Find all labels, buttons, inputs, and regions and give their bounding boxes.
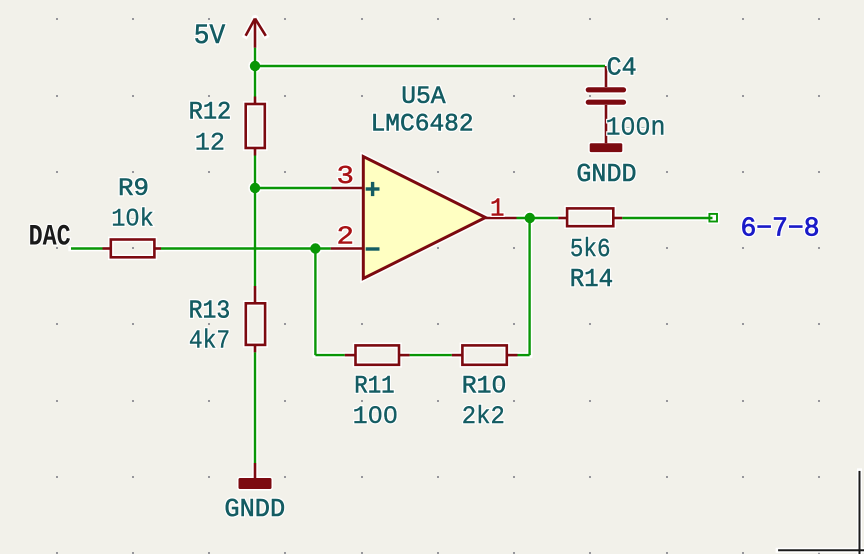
svg-text:U5A: U5A (401, 82, 446, 111)
svg-text:2k2: 2k2 (462, 403, 505, 431)
svg-text:5k6: 5k6 (570, 235, 611, 264)
svg-text:2: 2 (337, 222, 355, 251)
svg-text:1: 1 (490, 194, 505, 224)
svg-text:DAC: DAC (29, 220, 71, 254)
svg-text:R9: R9 (118, 174, 149, 203)
svg-text:C4: C4 (607, 53, 637, 83)
svg-text:10k: 10k (111, 204, 154, 233)
svg-text:GNDD: GNDD (576, 159, 636, 189)
svg-text:R14: R14 (570, 265, 614, 294)
svg-text:12: 12 (195, 129, 225, 157)
svg-text:R10: R10 (462, 372, 507, 400)
svg-text:5V: 5V (194, 21, 225, 52)
svg-text:GNDD: GNDD (224, 494, 285, 524)
svg-text:4k7: 4k7 (189, 327, 230, 356)
svg-text:100n: 100n (606, 113, 666, 143)
svg-text:R13: R13 (189, 297, 231, 326)
svg-text:100: 100 (353, 403, 398, 431)
svg-text:LMC6482: LMC6482 (371, 110, 474, 139)
svg-text:6−7−8: 6−7−8 (741, 214, 820, 244)
svg-text:3: 3 (337, 162, 355, 191)
svg-text:R11: R11 (354, 372, 394, 400)
svg-text:R12: R12 (189, 97, 232, 126)
